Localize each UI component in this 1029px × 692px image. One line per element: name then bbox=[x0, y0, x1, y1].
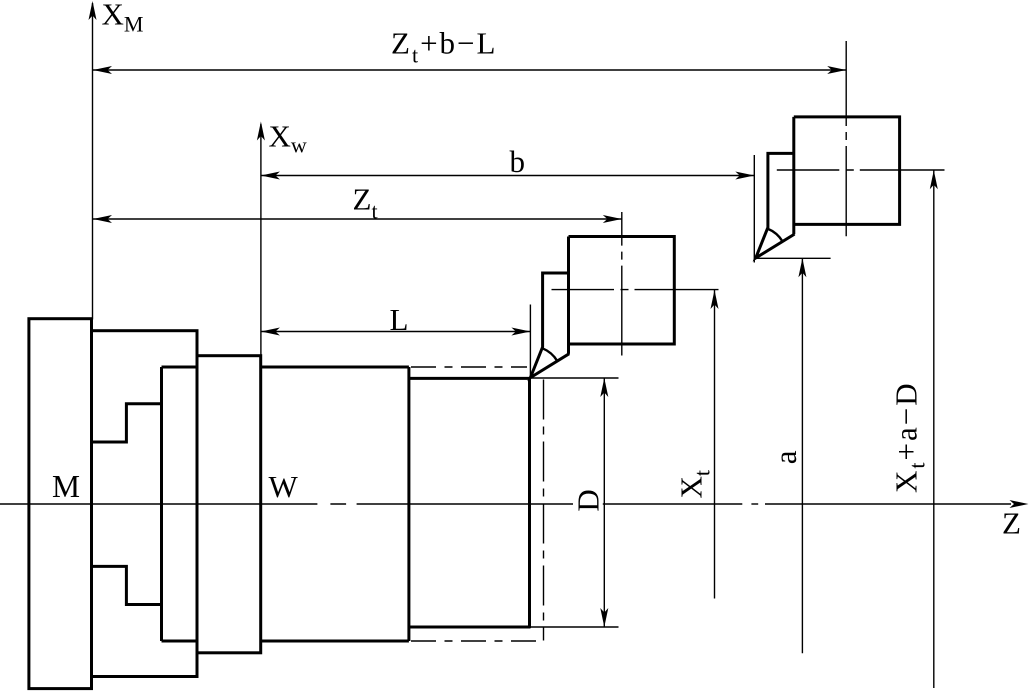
svg-text:D: D bbox=[571, 489, 606, 511]
workpiece collar flange bbox=[197, 356, 261, 653]
lower tool holder square bbox=[530, 237, 674, 378]
D top arrowhead bbox=[600, 378, 608, 397]
b left arrowhead bbox=[261, 172, 280, 180]
Xt arrowhead bbox=[711, 290, 719, 309]
workpiece end face bbox=[528, 377, 531, 628]
turned section top edge bbox=[409, 377, 530, 380]
upper tool nose angle arc bbox=[768, 229, 783, 242]
svg-text:Xt: Xt bbox=[674, 470, 715, 499]
svg-text:Zt+b−L: Zt+b−L bbox=[391, 26, 497, 68]
svg-text:Xt+a−D: Xt+a−D bbox=[889, 381, 930, 493]
lower tool vertical centerline bbox=[621, 212, 623, 356]
X_M axis line bbox=[92, 3, 94, 320]
svg-text:W: W bbox=[269, 469, 299, 504]
lower tool shank and insert bbox=[530, 273, 569, 378]
svg-text:Zt: Zt bbox=[353, 182, 378, 224]
workpiece gripped section bottom edge bbox=[162, 640, 198, 643]
svg-text:XM: XM bbox=[102, 0, 144, 37]
extension line at upper tool tip for b bbox=[753, 155, 755, 263]
Xt+a-D arrowhead bbox=[930, 170, 938, 189]
X_M axis arrowhead bbox=[89, 1, 97, 20]
workpiece shoulder face bbox=[407, 367, 410, 641]
svg-text:Xw: Xw bbox=[269, 119, 307, 158]
phantom stock top line bbox=[411, 366, 527, 368]
X_w axis arrowhead bbox=[257, 122, 265, 141]
upper tool vertical centerline bbox=[845, 41, 847, 236]
workpiece main cylinder top edge bbox=[261, 366, 409, 369]
turned section bottom extension line bbox=[530, 626, 618, 628]
upper tool holder square bbox=[756, 117, 900, 258]
b right arrowhead bbox=[735, 172, 754, 180]
dimension line a bbox=[801, 258, 803, 653]
dimension line Xt+a-D bbox=[933, 170, 935, 688]
Zt+b-L left arrowhead bbox=[93, 66, 112, 74]
phantom stock bottom line bbox=[411, 640, 544, 642]
lower tool nose angle arc bbox=[542, 348, 557, 361]
lower tool tip level line bbox=[530, 377, 618, 379]
chuck backplate M bbox=[29, 319, 92, 689]
workpiece main cylinder bottom edge bbox=[261, 640, 409, 643]
workpiece gripped section top edge bbox=[162, 366, 198, 369]
chuck body bbox=[92, 331, 198, 677]
svg-text:Z: Z bbox=[1002, 506, 1021, 541]
upper tool tip level line bbox=[756, 257, 831, 259]
Zt right arrowhead bbox=[603, 215, 622, 223]
extension line at lower tool tip for L bbox=[529, 305, 531, 378]
dimension line Zt+b-L bbox=[93, 69, 846, 71]
Zt left arrowhead bbox=[93, 215, 112, 223]
Z axis centerline segments bbox=[0, 503, 317, 505]
bottom jaw step bbox=[92, 566, 162, 604]
dimension line Zt bbox=[93, 218, 622, 220]
upper tool horizontal centerline bbox=[777, 169, 945, 171]
D bottom arrowhead bbox=[600, 608, 608, 627]
L left arrowhead bbox=[261, 328, 280, 336]
L right arrowhead bbox=[511, 328, 530, 336]
top jaw step bbox=[92, 404, 162, 442]
svg-text:a: a bbox=[768, 450, 803, 464]
turned section bottom edge bbox=[409, 626, 530, 629]
lower tool horizontal centerline bbox=[552, 289, 719, 291]
Zt+b-L right arrowhead bbox=[827, 66, 846, 74]
svg-text:L: L bbox=[390, 302, 409, 337]
workpiece gripped section left edge bbox=[160, 367, 163, 641]
dimension line D bbox=[603, 378, 605, 627]
X_w axis line bbox=[260, 124, 262, 356]
dimension line L bbox=[261, 331, 531, 333]
a arrowhead bbox=[798, 258, 806, 277]
dimension line Xt bbox=[714, 290, 716, 599]
phantom stock end line bbox=[543, 380, 545, 641]
svg-text:M: M bbox=[52, 469, 80, 504]
svg-text:b: b bbox=[510, 144, 526, 179]
dimension line b bbox=[261, 175, 754, 177]
upper tool shank and insert bbox=[756, 153, 795, 258]
Z axis arrowhead bbox=[1010, 500, 1029, 508]
